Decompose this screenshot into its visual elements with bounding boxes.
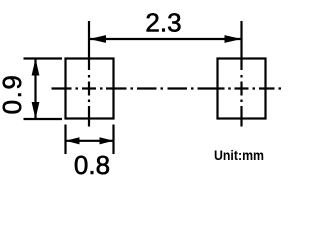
svg-text:0.9: 0.9 (0, 74, 27, 115)
svg-text:Unit:mm: Unit:mm (214, 147, 264, 163)
svg-text:0.8: 0.8 (74, 150, 110, 180)
svg-text:2.3: 2.3 (145, 8, 181, 38)
